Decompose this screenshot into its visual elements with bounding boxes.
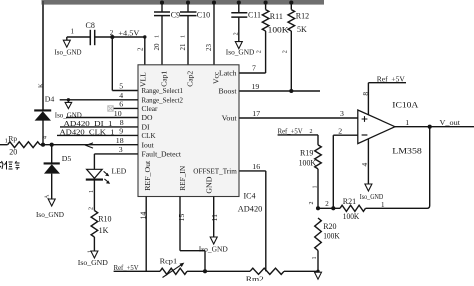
pin name CLK <box>142 131 156 140</box>
pin 10 of IC4 <box>114 109 122 118</box>
svg-text:Iso_GND: Iso_GND <box>226 47 255 56</box>
svg-text:3: 3 <box>119 145 123 154</box>
pin 1 of R19 <box>312 186 318 189</box>
pin A of D5 <box>45 194 51 199</box>
pin 1 of Rp <box>5 138 8 145</box>
wire Clear (pin 6) <box>113 107 138 109</box>
svg-text:LED: LED <box>112 167 127 176</box>
label AD420 <box>238 205 262 214</box>
current direction arrow on Iout <box>86 143 93 148</box>
pin 4 of IC4 <box>119 91 123 100</box>
pin 2 of C8 <box>110 29 114 37</box>
svg-text:Ref_+5V: Ref_+5V <box>377 74 406 83</box>
svg-text:100K: 100K <box>323 231 340 240</box>
svg-text:2: 2 <box>233 32 240 35</box>
svg-text:C10: C10 <box>197 11 210 20</box>
svg-text:Iso_GND: Iso_GND <box>78 258 108 267</box>
pin 20 of IC4 <box>153 43 161 51</box>
svg-text:GND: GND <box>205 176 214 194</box>
potentiometer Rcp1 <box>160 257 187 278</box>
pin A of D4 <box>43 136 49 139</box>
svg-text:R10: R10 <box>98 214 111 223</box>
pin 2 of R11 <box>255 50 262 53</box>
pin name GND <box>205 176 214 194</box>
node R20 foot <box>316 270 319 273</box>
svg-text:CLK: CLK <box>142 131 156 140</box>
svg-text:2: 2 <box>325 200 329 208</box>
wire REF_IN (pin 15) <box>180 197 205 272</box>
capacitor C11 <box>231 5 261 42</box>
svg-text:VLL: VLL <box>139 72 148 87</box>
wire Ref_+5V bottom rail <box>114 270 160 272</box>
svg-text:7: 7 <box>252 63 256 72</box>
net label AD420_CLK_1 <box>60 127 115 136</box>
svg-text:C8: C8 <box>86 21 95 30</box>
svg-text:100K: 100K <box>268 25 289 34</box>
pin 17 of IC4 <box>252 109 260 118</box>
svg-text:5K: 5K <box>297 25 307 34</box>
pin 1 of C8 <box>71 28 75 36</box>
svg-text:100K: 100K <box>343 212 360 221</box>
wire Boost (pin 19) <box>239 90 320 92</box>
pin 3 of IC4 <box>119 145 123 154</box>
wire CLK net AD420_CLK_1 (pin 9) <box>57 134 138 136</box>
pin 4 of IC10A <box>360 163 369 167</box>
resistor R10 <box>91 211 111 252</box>
diode D5 <box>44 154 72 199</box>
pin name Boost <box>219 87 238 96</box>
pin 6 of IC4 <box>119 100 123 109</box>
pin 1 of R21 <box>381 201 385 209</box>
power rail +4.5V (thick top bar) <box>42 0 325 5</box>
svg-text:16: 16 <box>252 162 260 171</box>
label IC10A <box>392 101 418 110</box>
wire C8 left <box>67 36 90 38</box>
svg-text:4: 4 <box>43 136 49 139</box>
svg-text:Rcp1: Rcp1 <box>160 257 178 266</box>
svg-text:Latch: Latch <box>219 69 237 78</box>
ground Iso_GND at op-amp <box>360 184 384 201</box>
pin 15 of IC4 <box>177 214 186 222</box>
pin 7 of IC4 <box>252 63 256 72</box>
capacitor C9 <box>154 11 180 20</box>
svg-text:15: 15 <box>177 214 186 222</box>
pin name Range_Select2 <box>142 95 184 104</box>
pin name VLL <box>139 72 148 87</box>
diode D4 <box>34 94 54 144</box>
wire VCC (pin 23) <box>213 5 215 65</box>
wire Rm2 to R20 foot <box>284 270 318 272</box>
wire Iout (pin 18) <box>43 144 138 146</box>
svg-text:A: A <box>45 194 51 199</box>
node R19 R20 junction <box>316 206 320 210</box>
wire op-amp pin2 <box>333 135 358 208</box>
ground Iso_GND at C8 pin1 <box>55 37 82 57</box>
svg-text:20: 20 <box>153 43 161 51</box>
wire V+ (pin 8) to Ref_+5V <box>368 83 406 115</box>
svg-text:2: 2 <box>88 207 94 210</box>
node C9 top <box>160 1 164 5</box>
svg-text:C11: C11 <box>248 11 261 20</box>
node REF_IN junction <box>203 269 207 273</box>
svg-text:20: 20 <box>9 148 17 157</box>
resistor Rp <box>0 134 43 157</box>
pin 8 of IC10A <box>361 92 370 96</box>
node Iout D4 junction <box>41 143 45 147</box>
svg-text:10: 10 <box>114 109 122 118</box>
node R11 top <box>264 1 268 5</box>
svg-text:1: 1 <box>5 138 8 145</box>
svg-text:Clear: Clear <box>142 104 158 113</box>
svg-text:23: 23 <box>205 44 213 52</box>
resistor Rm2 <box>246 268 284 283</box>
svg-text:Iso_GND: Iso_GND <box>360 192 384 201</box>
svg-text:REF_Out: REF_Out <box>143 160 152 191</box>
svg-text:2: 2 <box>282 50 289 53</box>
no-connect marker on pin 6 <box>108 106 113 111</box>
pin 2 of R20 <box>309 202 315 205</box>
svg-text:AD420_CLK_1: AD420_CLK_1 <box>60 127 115 136</box>
svg-text:8: 8 <box>361 92 370 96</box>
wire Fault_Detect to LED <box>93 154 95 169</box>
pin name REF_Out <box>143 160 152 191</box>
pin 18 of IC4 <box>116 136 124 145</box>
svg-text:2: 2 <box>338 126 342 135</box>
wire output (pin 1) <box>395 126 474 128</box>
svg-text:K: K <box>37 83 44 88</box>
pin name Cap2 <box>185 71 194 87</box>
pin label K <box>37 83 44 88</box>
wire OFFSET_Trim (pin 16) <box>239 171 265 271</box>
pin 1 of R20 <box>312 257 318 260</box>
svg-text:IC10A: IC10A <box>392 101 418 110</box>
net label V_out <box>440 118 462 127</box>
pin name REF_IN <box>178 165 187 190</box>
pin name Vout <box>222 114 238 123</box>
capacitor C10 <box>180 11 210 20</box>
svg-text:Iso_GND: Iso_GND <box>36 210 64 219</box>
svg-text:100K: 100K <box>299 158 317 167</box>
resistor R12 <box>288 5 309 92</box>
node Boost R12 junction <box>289 89 293 93</box>
pin name OFFSET_Trim <box>193 167 237 176</box>
pin name Cap1 <box>159 71 168 87</box>
wire R21 to output drop <box>366 127 430 209</box>
svg-text:1: 1 <box>405 118 409 127</box>
wire Ref_+5V to R19 <box>278 135 318 145</box>
wire pot to junction <box>187 270 250 272</box>
svg-text:5: 5 <box>119 82 123 91</box>
node pin4 gnd tap <box>67 98 70 101</box>
pin 1 of C9 <box>154 35 161 38</box>
svg-text:Cap2: Cap2 <box>185 71 194 87</box>
pin 11 of IC4 <box>210 214 219 222</box>
svg-text:Range_Select1: Range_Select1 <box>142 86 184 95</box>
ground Iso_GND at D5 <box>36 199 64 219</box>
wire D5 drop <box>51 145 53 163</box>
svg-text:2: 2 <box>310 129 313 135</box>
wire Cap1 (pin 20) <box>161 5 163 65</box>
wire REF_Out (pin 14) <box>145 197 147 272</box>
svg-text:Vout: Vout <box>222 114 238 123</box>
svg-text:DO: DO <box>142 113 153 122</box>
resistor R19 <box>299 145 322 208</box>
svg-text:D4: D4 <box>45 94 55 103</box>
pin 2 of IC4 <box>137 47 145 51</box>
svg-text:2: 2 <box>309 202 315 205</box>
node D5 tap <box>50 143 54 147</box>
svg-text:6: 6 <box>119 100 123 109</box>
pin 2 of C11 <box>233 32 240 35</box>
svg-text:AD420: AD420 <box>238 205 262 214</box>
wire DO (pin 10) <box>66 117 138 119</box>
svg-text:Rm2: Rm2 <box>246 274 264 281</box>
svg-text:Iout: Iout <box>142 140 155 149</box>
svg-text:Rp: Rp <box>8 134 17 143</box>
pin name Range_Select1 <box>142 86 184 95</box>
resistor R11 <box>262 5 289 74</box>
op-amp U IC10A <box>358 110 395 144</box>
pin 1 of LED <box>89 190 95 193</box>
wire Latch (pin 7) <box>239 72 265 74</box>
ground Iso_GND at bottom rail <box>315 272 322 279</box>
pin 2 of R19 <box>310 129 313 135</box>
pin 21 of IC4 <box>179 43 187 51</box>
resistor R20 <box>315 218 340 271</box>
node VLL corner <box>143 35 146 38</box>
pin 19 of IC4 <box>252 82 260 91</box>
pin name Fault_Detect <box>142 150 182 159</box>
svg-text:R21: R21 <box>343 197 356 206</box>
net label Ref_+5V at R19 <box>278 127 304 136</box>
pin name Clear <box>142 104 158 113</box>
svg-text:1K: 1K <box>99 226 109 235</box>
svg-text:R11: R11 <box>270 12 283 21</box>
ground Iso_GND at C11 <box>226 42 255 57</box>
node +4.5V junction <box>110 35 114 39</box>
svg-text:1: 1 <box>312 186 318 189</box>
svg-text:R20: R20 <box>323 222 336 231</box>
pin 2 of R21 <box>325 200 329 208</box>
pin 1 of IC10A <box>405 118 409 127</box>
node op-amp pin2 tap <box>331 206 335 210</box>
pin name Latch <box>219 69 237 78</box>
net label Ref_+5V bottom <box>114 263 140 272</box>
op-amp U IC4 AD420 body <box>138 65 239 197</box>
pin 2 of R10 <box>88 207 94 210</box>
pin 9 of IC4 <box>119 127 123 136</box>
pin name Vcc <box>212 71 221 84</box>
wire Cap2 (pin 21) <box>187 5 189 65</box>
pin 1 of C10 <box>180 35 187 38</box>
ground Iso_GND at R10 <box>78 251 108 267</box>
wire LED to R10 <box>93 180 95 211</box>
svg-text:V_out: V_out <box>440 118 462 127</box>
svg-text:19: 19 <box>252 82 260 91</box>
svg-text:C9: C9 <box>171 11 180 20</box>
svg-text:18: 18 <box>116 136 124 145</box>
wire K (left vertical from rail through D4) <box>42 1 44 110</box>
wire V- (pin 4) <box>367 139 369 185</box>
pin 8 of IC4 <box>120 118 124 127</box>
svg-text:R19: R19 <box>300 148 313 157</box>
ground Iso_GND at pin 11 <box>199 237 228 254</box>
node output junction <box>428 125 432 129</box>
pin name DO <box>142 113 153 122</box>
svg-text:Iso_GND: Iso_GND <box>55 48 82 57</box>
node C11 top <box>237 1 241 5</box>
svg-text:IC4: IC4 <box>244 191 256 200</box>
svg-text:17: 17 <box>252 109 260 118</box>
pin 14 of IC4 <box>138 212 147 220</box>
svg-text:14: 14 <box>138 212 147 220</box>
wire GND (pin 11) <box>213 197 215 238</box>
wire DI net AD420_DI_1 (pin 8) <box>60 126 138 128</box>
pin 23 of IC4 <box>205 44 213 52</box>
svg-text:1: 1 <box>154 35 161 38</box>
pin 1 of R10 <box>88 250 94 253</box>
wire Vout (pin 17) to op-amp <box>239 117 357 119</box>
node VCC top <box>212 1 216 5</box>
wire C8 right to +4.5V node <box>95 36 145 38</box>
svg-text:D5: D5 <box>62 154 72 163</box>
label LM358 <box>392 147 422 156</box>
svg-text:9: 9 <box>119 127 123 136</box>
svg-text:Fault_Detect: Fault_Detect <box>142 150 182 159</box>
node C10 top <box>186 1 190 5</box>
wire +4.5V riser to pin 5 <box>112 37 138 91</box>
label IC4 <box>244 191 256 200</box>
node R12 top <box>289 1 293 5</box>
svg-text:21: 21 <box>179 43 187 51</box>
svg-text:4: 4 <box>360 163 369 167</box>
resistor R21 <box>340 197 366 221</box>
pin 16 of IC4 <box>252 162 260 171</box>
wire inverting node <box>318 207 340 209</box>
wire Range_Select2 (pin 4) <box>60 99 138 101</box>
svg-text:1: 1 <box>71 28 75 36</box>
pin name DI <box>142 123 150 132</box>
pin 2 of IC10A <box>338 126 342 135</box>
pin 2 of R12 <box>282 50 289 53</box>
wire VLL drop (pin 2) <box>144 37 146 65</box>
svg-text:2: 2 <box>255 50 262 53</box>
capacitor C8 <box>86 21 95 45</box>
label +4.5V <box>118 28 139 37</box>
ground Iso_GND at pin 4 <box>55 100 82 120</box>
svg-text:LM358: LM358 <box>392 147 422 156</box>
net label AD420_DI_1 <box>64 119 113 128</box>
svg-text:11: 11 <box>210 214 219 222</box>
svg-text:1: 1 <box>180 35 187 38</box>
svg-text:+4.5V: +4.5V <box>118 28 139 37</box>
svg-text:4: 4 <box>119 91 123 100</box>
svg-text:OFFSET_Trim: OFFSET_Trim <box>193 167 237 176</box>
pin 5 of IC4 <box>119 82 123 91</box>
svg-text:Iso_GND: Iso_GND <box>199 245 228 254</box>
label input signal (chinese, partially clipped) <box>0 161 20 170</box>
svg-text:1: 1 <box>312 257 318 260</box>
svg-text:2: 2 <box>137 47 145 51</box>
pin name Iout <box>142 140 155 149</box>
svg-text:REF_IN: REF_IN <box>178 165 187 190</box>
svg-text:Boost: Boost <box>219 87 238 96</box>
wire Fault_Detect (pin 3) <box>94 153 138 155</box>
svg-text:Cap1: Cap1 <box>159 71 168 87</box>
svg-text:3: 3 <box>340 109 344 118</box>
svg-text:R12: R12 <box>296 11 309 20</box>
LED D indicator <box>86 167 127 184</box>
net label Ref_+5V at op-amp <box>377 74 406 83</box>
pin 3 of IC10A <box>340 109 344 118</box>
